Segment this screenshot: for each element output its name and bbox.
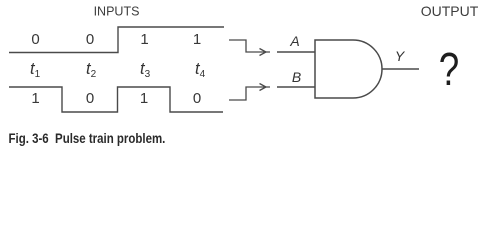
svg-text:A: A: [289, 33, 299, 49]
svg-text:t1: t1: [30, 60, 41, 80]
svg-text:t2: t2: [86, 60, 97, 80]
svg-text:B: B: [292, 69, 301, 85]
svg-text:1: 1: [31, 90, 39, 107]
svg-text:?: ?: [439, 43, 459, 95]
svg-text:1: 1: [193, 31, 201, 48]
arrowhead on connector A: [260, 49, 267, 56]
svg-text:1: 1: [140, 31, 148, 48]
wire: gate output Y: [382, 68, 419, 70]
svg-text:t3: t3: [140, 60, 151, 80]
wire: gate input A: [277, 51, 315, 53]
waveform A pulse train (0 0 1 1): [9, 27, 224, 53]
svg-text:0: 0: [31, 31, 39, 48]
waveform B pulse train (1 0 1 0): [9, 87, 223, 112]
svg-text:0: 0: [86, 90, 94, 107]
connector wire from waveform B to gate input B: [229, 87, 270, 100]
connector wire from waveform A to gate input A: [229, 40, 270, 52]
svg-text:INPUTS: INPUTS: [94, 5, 140, 19]
svg-text:Fig. 3-6 Pulse train problem.: Fig. 3-6 Pulse train problem.: [9, 130, 166, 146]
arrowhead on connector B: [260, 84, 267, 91]
svg-text:1: 1: [140, 90, 148, 107]
svg-text:OUTPUT: OUTPUT: [421, 3, 479, 19]
svg-text:t4: t4: [195, 60, 206, 80]
svg-text:0: 0: [86, 31, 94, 48]
wire: gate input B: [277, 86, 315, 88]
svg-text:0: 0: [193, 90, 201, 107]
svg-text:Y: Y: [395, 48, 406, 64]
AND gate: [315, 40, 382, 98]
